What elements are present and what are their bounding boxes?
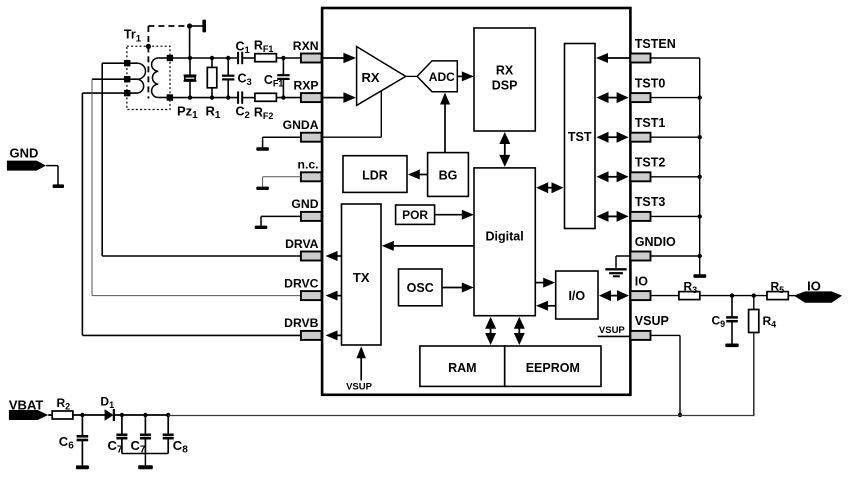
svg-text:RX: RX	[496, 64, 514, 78]
pin TST3 (label)	[635, 195, 666, 209]
RX DSP block	[474, 28, 535, 131]
svg-text:TX: TX	[353, 270, 370, 285]
arrow Digital to I-O	[535, 278, 555, 288]
label C7 (first)	[108, 438, 123, 456]
EEPROM block	[505, 346, 601, 386]
arrow TST - TST1 pin	[597, 132, 629, 143]
wire GNDA to ground	[263, 137, 301, 147]
pin GND (pad)	[301, 212, 322, 221]
arrow BG to LDR	[408, 170, 428, 180]
svg-text:VSUP: VSUP	[346, 382, 373, 393]
arrow Digital - EEPROM	[514, 317, 525, 345]
svg-text:DRVA: DRVA	[285, 237, 319, 251]
IC package outline	[322, 8, 630, 395]
resistor R4	[749, 296, 759, 417]
pin TST0 (pad)	[630, 93, 650, 102]
pin TST3 (pad)	[630, 212, 650, 221]
label C3	[238, 72, 252, 89]
wire VBAT to R2	[48, 414, 52, 416]
svg-text:BG: BG	[439, 169, 458, 183]
wire R3 to R5	[700, 295, 767, 297]
svg-text:Digital: Digital	[485, 230, 523, 244]
terminal squares Tr1 secondary	[167, 55, 173, 101]
svg-text:POR: POR	[402, 208, 428, 222]
label VSUP (net stub)	[599, 325, 626, 336]
wire VSUP pin to VBAT line	[651, 335, 681, 415]
arrow POR to Digital	[435, 210, 474, 220]
svg-text:GNDIO: GNDIO	[635, 235, 676, 249]
svg-text:GNDA: GNDA	[283, 118, 319, 132]
label RF1	[254, 38, 274, 54]
svg-text:GND: GND	[291, 197, 318, 211]
net label VBAT (flag)	[9, 397, 48, 420]
node GNDIO bus junction	[698, 254, 702, 258]
wire RX to ADC	[406, 75, 417, 77]
ground (GND flag)	[53, 184, 64, 188]
pin TST2 (pad)	[630, 172, 650, 181]
node R1 top	[210, 56, 214, 60]
wire TST0 to bus	[651, 97, 700, 99]
resistor R5	[767, 292, 788, 300]
resistor R3	[679, 292, 700, 300]
wire TST3 to bus	[651, 215, 700, 217]
I-O block	[556, 271, 598, 319]
wire RXN net	[170, 57, 301, 59]
arrow TX to DRVA	[326, 251, 342, 261]
pin GND (label)	[291, 197, 318, 211]
wire R2 to D1	[73, 414, 105, 416]
svg-text:EEPROM: EEPROM	[526, 361, 580, 375]
svg-text:RX: RX	[361, 70, 379, 85]
wire DRVC to Tr1 center tap	[92, 79, 301, 295]
svg-text:VSUP: VSUP	[635, 314, 669, 328]
wire IO pin to R3	[651, 295, 679, 297]
TST block	[565, 44, 596, 229]
node core ground	[146, 23, 192, 49]
pin RXP (label)	[293, 78, 318, 92]
pin RXN (label)	[293, 39, 319, 53]
pin TSTEN (label)	[635, 37, 676, 51]
wire RXP into RX	[322, 92, 356, 103]
label RF2	[254, 105, 274, 121]
ADC block	[417, 61, 457, 92]
capacitor CF1	[277, 58, 289, 98]
svg-text:I/O: I/O	[568, 289, 585, 303]
wire TST2 to bus	[651, 176, 700, 178]
pin TSTEN (pad)	[630, 54, 650, 63]
transformer Tr1 dashed enclosure	[127, 46, 170, 109]
BG block	[428, 153, 469, 197]
resistor RF2	[255, 93, 277, 101]
resistor R2	[52, 411, 73, 419]
OSC block	[399, 269, 443, 306]
arrow TSTEN into TST	[596, 53, 630, 63]
Digital block	[474, 168, 535, 316]
RAM block	[420, 346, 505, 386]
terminal squares Tr1 primary	[124, 60, 130, 96]
piezo Pz1	[184, 58, 197, 98]
label C7 (second)	[131, 438, 146, 456]
node C3 top	[226, 56, 230, 60]
arrow I-O - IO pin	[599, 290, 629, 301]
wire ADC to RX DSP	[457, 71, 474, 81]
arrow TX to DRVC	[326, 291, 342, 301]
pin DRVC (pad)	[301, 291, 322, 300]
pin IO (pad)	[630, 291, 650, 300]
pin DRVC (label)	[284, 276, 319, 290]
svg-text:RXP: RXP	[293, 78, 318, 92]
svg-text:TST1: TST1	[635, 116, 666, 130]
wire test bus vertical	[699, 58, 701, 275]
pin n.c. (label)	[298, 158, 319, 172]
label Pz1	[177, 104, 198, 122]
capacitor C6	[77, 415, 89, 466]
TX block	[342, 204, 382, 345]
wire GNDA feedback to RX	[322, 92, 381, 138]
arrow RX DSP - Digital	[499, 132, 510, 167]
ground (n.c.)	[256, 187, 269, 190]
label VSUP (TX supply)	[346, 382, 373, 393]
POR block	[396, 205, 435, 224]
diode D1	[105, 409, 114, 421]
capacitor C8	[163, 415, 174, 454]
arrow OSC to Digital	[442, 283, 474, 293]
pin GNDIO (pad)	[630, 252, 650, 261]
pin GNDA (pad)	[301, 133, 322, 142]
wire DRVA to Tr1 top tap	[102, 63, 301, 256]
net label GND (flag)	[7, 146, 46, 171]
wire RXP net	[170, 97, 301, 99]
node CF1 bottom	[281, 95, 285, 99]
wire VBAT line	[168, 415, 754, 417]
svg-text:RXN: RXN	[293, 39, 319, 53]
arrow TX to DRVB	[326, 330, 342, 340]
svg-text:TST0: TST0	[635, 76, 666, 90]
LDR block	[343, 156, 407, 193]
node VSUP - VBAT line	[678, 413, 682, 417]
capacitor C1	[238, 52, 242, 64]
transformer Tr1 label	[124, 28, 142, 45]
arrow VSUP to TX	[356, 346, 366, 380]
node R1 bottom	[210, 95, 214, 99]
ground (C7 C8)	[138, 465, 153, 469]
pin GNDA (label)	[283, 118, 319, 132]
capacitor C3	[222, 58, 234, 98]
ground (C6)	[76, 465, 89, 469]
svg-text:n.c.: n.c.	[298, 158, 319, 172]
label C8	[173, 438, 188, 456]
label R5	[771, 279, 785, 295]
label C1	[236, 39, 251, 56]
wire GNDIO to bus	[651, 255, 700, 257]
svg-text:TST2: TST2	[635, 156, 666, 170]
node C7b junction	[143, 413, 147, 417]
wire DRVB to Tr1 bottom tap	[82, 93, 301, 335]
label C9	[712, 314, 726, 330]
pin GNDIO (label)	[635, 235, 676, 249]
node CF1 top	[281, 56, 285, 60]
capacitor C9	[726, 296, 738, 344]
node Pz1 bottom	[188, 95, 192, 99]
wire R5 to IO flag	[788, 295, 795, 297]
ground (GND pin)	[255, 226, 268, 229]
label C2	[236, 105, 250, 122]
capacitor C2	[238, 91, 242, 103]
svg-text:GND: GND	[10, 146, 39, 161]
pin DRVB (label)	[284, 316, 319, 330]
pin TST1 (label)	[635, 116, 666, 130]
pin TST0 (label)	[635, 76, 666, 90]
wire node to top ground	[190, 25, 203, 27]
label CF1	[264, 73, 284, 89]
pin VSUP (pad)	[630, 331, 650, 340]
label D1	[100, 395, 114, 411]
wire VSUP net stub	[598, 335, 631, 337]
capacitor C7 (first)	[116, 415, 127, 454]
arrow TST - TST0 pin	[597, 92, 629, 103]
transformer Tr1 primary winding	[82, 63, 145, 93]
arrow Digital to TX	[382, 241, 474, 251]
svg-text:ADC: ADC	[429, 70, 455, 84]
svg-text:DSP: DSP	[492, 79, 518, 93]
op-amp RX	[357, 47, 406, 106]
wire GND pin to ground	[261, 216, 301, 226]
pin TST1 (pad)	[630, 133, 650, 142]
ground (test bus)	[693, 274, 706, 278]
wire GND flag to ground	[46, 166, 58, 185]
svg-text:VSUP: VSUP	[599, 325, 626, 336]
transformer Tr1 secondary winding	[152, 58, 170, 98]
pin IO (label)	[635, 274, 648, 288]
svg-text:LDR: LDR	[362, 169, 388, 183]
arrow TST - TST3 pin	[597, 211, 629, 222]
svg-text:TST3: TST3	[635, 195, 666, 209]
svg-text:DRVC: DRVC	[284, 276, 319, 290]
node C9 junction	[730, 293, 734, 297]
svg-text:OSC: OSC	[407, 281, 434, 295]
arrow TST - TST2 pin	[597, 171, 629, 182]
svg-text:DRVB: DRVB	[284, 316, 319, 330]
resistor R1	[207, 58, 217, 98]
ground (C9)	[725, 344, 738, 348]
pin n.c. (pad)	[301, 172, 322, 181]
node Pz1 top	[188, 56, 192, 60]
arrow BG to ADC	[440, 93, 450, 153]
arrow Digital - RAM	[485, 317, 496, 345]
dashed wire core to ground node	[148, 26, 189, 46]
svg-text:IO: IO	[635, 274, 648, 288]
node TST1 bus junction	[698, 135, 702, 139]
pin DRVA (pad)	[301, 252, 322, 261]
arrow Digital - TST	[536, 182, 563, 193]
wire C7-C8 ground connector	[122, 454, 168, 466]
pin RXP (pad)	[301, 93, 322, 102]
svg-text:IO: IO	[807, 279, 821, 294]
ground (transformer shield)	[202, 20, 206, 33]
node TST3 bus junction	[698, 214, 702, 218]
node C7a junction	[120, 413, 124, 417]
node R4 junction	[752, 293, 756, 297]
svg-text:RAM: RAM	[448, 361, 476, 375]
node C3 bottom	[226, 95, 230, 99]
arrow I-O to Digital	[536, 301, 556, 311]
wire RXN into RX	[322, 53, 356, 64]
capacitor C7 (second)	[140, 415, 151, 454]
label R2	[57, 396, 71, 412]
pin DRVB (pad)	[301, 331, 322, 340]
node TST0 bus junction	[698, 95, 702, 99]
wire D1 to C8 junction	[114, 414, 168, 416]
pin RXN (pad)	[301, 54, 322, 63]
svg-text:TST: TST	[568, 130, 592, 144]
node C8 junction	[166, 413, 170, 417]
ground (GNDA)	[256, 147, 269, 150]
label C6	[59, 434, 74, 452]
node TST2 bus junction	[698, 175, 702, 179]
svg-text:TSTEN: TSTEN	[635, 37, 676, 51]
wire ground node down to RXN net	[189, 26, 191, 58]
node C6 junction	[80, 413, 84, 417]
pin TST2 (label)	[635, 156, 666, 170]
ground (GNDIO internal earth)	[605, 269, 626, 276]
resistor RF1	[255, 54, 277, 62]
label R3	[684, 279, 698, 295]
wire GNDIO internal	[616, 256, 630, 268]
pin DRVA (label)	[285, 237, 319, 251]
wire TSTEN to bus	[651, 57, 700, 59]
label R4	[763, 314, 777, 330]
net label IO (flag)	[794, 279, 842, 303]
label R1	[206, 104, 221, 122]
wire n.c. to ground	[263, 177, 301, 187]
transformer core dashed line	[147, 46, 149, 98]
wire TST1 to bus	[651, 136, 700, 138]
pin VSUP (label)	[635, 314, 669, 328]
